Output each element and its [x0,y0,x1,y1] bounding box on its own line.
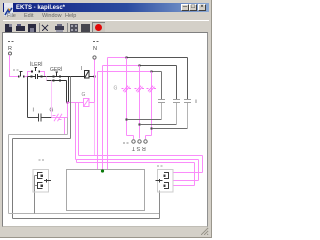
wire GERI top right drop [68,77,70,103]
wire loop B light [9,118,68,214]
node coil I to N line [94,76,96,78]
wire bottom pink bus 3 [77,160,195,186]
wire phase column 2 [139,66,141,139]
delete X button [42,25,48,31]
open folder button [16,26,25,31]
contact I power 1 closed [122,86,132,93]
svg-text:I: I [81,66,82,72]
separator 2 [67,23,68,33]
save button [28,24,36,32]
svg-text:G: G [82,92,86,98]
svg-text:İLERİ: İLERİ [30,61,43,68]
wire source jog 3 [146,136,152,140]
wire rung2 riser [67,103,69,118]
node crossover 3 [151,128,153,130]
wire bottom pink bus 2 [76,160,199,181]
wire phase column 1 [126,58,128,136]
contact G power 2 open [173,66,180,125]
motor M box [67,170,145,211]
wire node A drop to rung2 [27,77,29,118]
wire source jog 1 [127,136,134,140]
wire bottom light bus [9,213,160,215]
wire coil G out [89,102,95,104]
right connector box [158,170,174,193]
contact G power 3 open [184,58,191,129]
wire drop coil G left [78,103,80,156]
contact I power 2 closed [135,86,145,93]
svg-text:G: G [114,86,118,92]
svg-text:I: I [33,108,34,114]
wire rung2 riser to GERI branch [51,81,53,118]
wire motor phase 2 vertical [102,66,104,170]
run (red dot) button pressed [92,22,105,34]
node N label [93,41,99,52]
right connector plunger [156,179,163,183]
contact GERI aux (lower branch) [47,80,67,82]
left connector contact top [38,173,43,179]
stop button NC contact [18,72,25,78]
separator [39,23,40,33]
print button [55,26,64,30]
wire bottom pink bus 1 [79,156,203,173]
rung2 wire with contact I [28,114,52,122]
wire stop to node A [25,76,28,78]
node crossover 1 [126,119,128,121]
svg-text:R S T: R S T [131,145,146,151]
label stop dashes [13,70,19,71]
wire top bus 2 dark [140,65,177,67]
contact I power 3 closed [147,86,157,93]
simulate button 1 [70,24,78,32]
wire to coil G [68,102,84,104]
wire branch link left [46,77,48,81]
svg-text:N: N [93,46,97,52]
pushbutton GERI NC (top branch) [45,72,85,77]
left connector contact bottom [38,183,43,189]
wire motor phase 3 vertical [107,58,109,170]
wire top bus 1 dark [127,57,188,59]
wire right connector riser [159,191,161,219]
phase source R terminal [9,52,12,55]
node crossover 2 [139,124,141,126]
right connector contact top [164,173,169,179]
node bus1 junction [126,57,128,59]
pushbutton ILERI NO (top branch) [28,68,45,77]
left connector plunger [44,179,51,183]
node bus2 junction [139,65,141,67]
label right connector dashes [157,166,163,167]
wire crossover 1 [127,119,162,121]
wire left connector feed [35,176,38,214]
wire GERI bottom right drop [66,81,68,103]
new file button [5,24,12,32]
neutral N terminal [93,56,96,59]
three-phase source RST [132,140,147,143]
wire top bus 3 dark [152,71,162,73]
wire crossover 3 [152,128,188,130]
coil G (GERI contactor) [84,99,90,107]
wire top bus 1 pink [108,57,127,59]
motor terminal green [101,169,104,172]
contact G power 1 open [158,72,165,120]
label source dashes [123,143,129,144]
label left connector dashes [39,160,45,161]
coil I (ILERI contactor) [85,71,90,79]
wire N return vertical [94,60,96,103]
svg-text:R: R [8,46,12,52]
simulate button 2 [81,24,90,32]
wire rung2 drop left [64,118,66,135]
contact G NC closed (rung2) [52,114,68,122]
resize grip [201,228,208,235]
wire phase column 3 [151,72,153,136]
contact ILERI seal NO (bottom branch) [28,74,45,79]
wire R drop [10,55,19,77]
node GERI junction [67,102,69,104]
node R label [8,41,14,52]
wire loop A coil side [13,77,160,219]
label G power tick [196,100,197,104]
wire top bus 3 pink [98,71,152,73]
left connector box [33,170,49,193]
node bus3 junction [151,71,153,73]
wire crossover 2 [140,124,177,126]
right connector contact bottom [164,183,169,189]
wire coil I out [89,76,95,78]
wire drop mid [75,103,77,160]
wire top bus 2 pink [103,65,140,67]
wire motor phase 1 vertical [97,72,99,170]
